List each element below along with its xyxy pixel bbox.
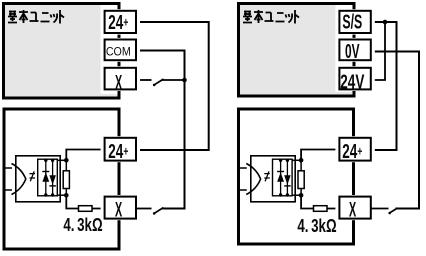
base unit box U3 (right 基本ユニット) [239, 4, 355, 97]
wire LED box to resistor node (bottom) [58, 194, 67, 196]
svg-text:X: X [115, 198, 123, 222]
terminal X (left base unit) [101, 66, 140, 94]
diode D3 (up) [277, 159, 284, 197]
phototransistor crescent [12, 164, 26, 195]
wire S/S to rail down to lower unit 24+ [371, 22, 397, 150]
white column behind terminal boxes (right) [335, 5, 352, 92]
phototransistor crescent [246, 164, 260, 195]
diode D4 (down) [284, 159, 291, 197]
wire 0V to far-right rail down to lower X switch [371, 52, 420, 209]
svg-text:4. 3kΩ: 4. 3kΩ [63, 215, 102, 236]
phototransistor lead stubs [239, 168, 247, 190]
node C (top junction) [299, 158, 304, 163]
wire 24V up to S/S link [371, 22, 386, 80]
light arrows [30, 171, 36, 181]
label 基本ユニット (right) [243, 10, 299, 24]
svg-text:4. 3kΩ: 4. 3kΩ [297, 216, 336, 237]
wire COM to rail down to lower X switch [136, 51, 185, 209]
terminal 24+ (left base unit) [101, 9, 140, 34]
wire node to lower 24+ box [301, 150, 340, 161]
label 基本ユニット (left) [8, 10, 64, 24]
base unit box U1 (left 基本ユニット) [4, 4, 120, 99]
wire node to 4.3k resistor to X box [66, 195, 105, 208]
svg-text:X: X [115, 70, 123, 94]
value label 4.3kΩ (left) [63, 215, 102, 236]
terminal 24+ (right extension) [335, 136, 374, 162]
resistor R4 4.3kΩ (horizontal) [314, 206, 328, 212]
resistor R1 (vertical) [63, 160, 69, 196]
terminal X (left extension) [101, 195, 140, 222]
diode branch nodes [44, 159, 47, 162]
terminal 24V (right base unit) [335, 66, 374, 93]
photocoupler PC2 outer box [251, 156, 295, 202]
extension unit box U2 (left lower) [4, 109, 119, 249]
node junction S/S-24V [383, 20, 388, 25]
LED pair box [38, 159, 58, 196]
terminal S/S (right base unit) [335, 9, 374, 34]
terminal X (right extension) [335, 195, 374, 222]
wire LED box to resistor node (bottom) [292, 194, 301, 196]
phototransistor lead stubs [5, 168, 13, 190]
svg-text:24V: 24V [340, 69, 364, 93]
svg-text:COM: COM [106, 46, 131, 58]
wire LED box to resistor node (top) [292, 159, 301, 161]
resistor R2 4.3kΩ (horizontal) [79, 206, 93, 212]
switch S3 (right lower X contact) [389, 208, 398, 213]
diode D1 (up) [42, 159, 49, 197]
terminal 24+ (left extension) [101, 136, 140, 162]
svg-text:0V: 0V [345, 39, 360, 62]
photocoupler PC1 outer box [16, 156, 60, 202]
svg-text:S/S: S/S [342, 10, 362, 33]
switch S1 (top X contact) [154, 79, 164, 85]
node B (bottom junction) [64, 193, 69, 198]
wire 24+ to far-right rail down to lower unit 24+ [136, 22, 209, 150]
white column behind terminal boxes (left) [101, 5, 118, 94]
node D (bottom junction) [299, 193, 304, 198]
diode branch nodes [279, 159, 282, 162]
wire LED box to resistor node (top) [58, 159, 67, 161]
resistor R3 (vertical) [298, 160, 304, 196]
value label 4.3kΩ (right) [297, 216, 336, 237]
terminal COM (left base unit) [101, 38, 140, 62]
wire X (top) to switch [136, 79, 152, 81]
light arrows [264, 171, 270, 181]
wire node to 4.3k resistor to X box [301, 195, 340, 208]
node A (top junction) [64, 158, 69, 163]
node junction X/COM rail [182, 78, 187, 83]
wire node to lower 24+ box [66, 150, 105, 161]
svg-text:X: X [349, 198, 357, 222]
wire switch to COM rail [162, 79, 185, 81]
wire lower X to switch [371, 208, 389, 210]
wire lower X to switch [136, 208, 152, 210]
terminal 0V (right base unit) [335, 38, 374, 63]
diode D2 (down) [49, 159, 56, 197]
switch S2 (lower X contact) [154, 208, 164, 214]
LED pair box [273, 159, 293, 196]
extension unit box U4 (right lower) [239, 109, 354, 244]
